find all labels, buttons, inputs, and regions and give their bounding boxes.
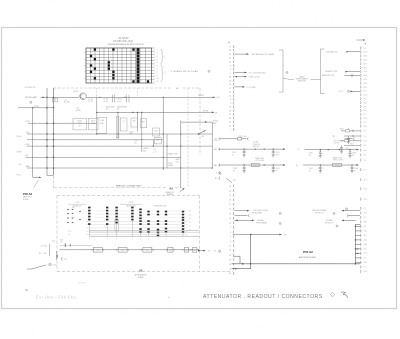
label swp x10 <box>176 159 181 163</box>
svg-text:9 J: 9 J <box>364 267 366 269</box>
label +12.6V feed <box>253 142 260 149</box>
svg-text:+12.6V: +12.6V <box>334 143 340 145</box>
svg-text:3 J: 3 J <box>364 249 366 251</box>
component box attenuator cell 2 <box>154 138 161 144</box>
svg-text:10 J: 10 J <box>364 75 367 77</box>
svg-text:10 J: 10 J <box>364 83 367 85</box>
wire vertical V6 <box>141 112 143 152</box>
attenuator section box B1 <box>92 248 104 253</box>
wire bus B4 <box>27 139 163 141</box>
resistor pack RP1 <box>88 207 90 237</box>
title revision squiggle <box>341 292 348 298</box>
svg-text:TP3: TP3 <box>332 136 335 138</box>
note 4b marker <box>25 288 29 292</box>
label R106 ATTEN value <box>117 106 128 111</box>
A1 internal dashed partition <box>187 88 189 188</box>
switch table wafer bracket upper <box>161 49 167 63</box>
inductor L202 on bus F2 <box>252 163 260 167</box>
wire -12.6V stub <box>18 107 54 109</box>
P/O A1 attenuator assembly dashed outline (top border) <box>54 87 201 90</box>
svg-text:VIA CABLE ASSY W-1 (A1A2): VIA CABLE ASSY W-1 (A1A2) <box>252 53 275 56</box>
wire attenuator output line <box>60 249 197 251</box>
capacitor C210 with lead <box>340 145 360 153</box>
wire readout data dashed line <box>54 187 183 189</box>
svg-text:C14: C14 <box>64 259 67 261</box>
svg-text:7 J: 7 J <box>364 122 366 124</box>
svg-text:10: 10 <box>229 126 231 128</box>
svg-text:15 J: 15 J <box>364 189 367 191</box>
lamp DS1 indicator <box>49 263 57 266</box>
svg-text:T CAL: T CAL <box>99 119 104 122</box>
svg-text:9 J: 9 J <box>364 91 366 93</box>
label main trig pickoff <box>255 157 264 162</box>
P/O A1 dashed outline right border <box>199 88 201 155</box>
input attenuator transistor stage <box>39 240 63 257</box>
switch table S2 contact grid <box>86 48 155 83</box>
svg-text:R30: R30 <box>193 250 196 252</box>
connector XA2 direction arrow <box>357 39 366 41</box>
label mid header note <box>154 205 167 208</box>
label C9 0.1 <box>153 149 155 153</box>
svg-text:23 J: 23 J <box>364 71 367 73</box>
capacitor C205 <box>309 150 322 158</box>
svg-text:9: 9 <box>230 241 231 243</box>
svg-text:–7: –7 <box>156 68 158 70</box>
svg-text:.01: .01 <box>60 242 62 244</box>
svg-text:30: 30 <box>229 223 231 225</box>
svg-text:24 J: 24 J <box>364 240 367 242</box>
P/O A1 dashed outline left border <box>53 88 55 188</box>
A3 annotation arrow <box>180 188 185 193</box>
svg-text:2: 2 <box>230 227 231 229</box>
resistor pack RP3 <box>115 207 117 237</box>
svg-text:6 J: 6 J <box>364 258 366 260</box>
transistor Q101 <box>80 93 87 100</box>
svg-text:1: 1 <box>230 73 231 75</box>
svg-text:+12V SEL: +12V SEL <box>40 246 47 248</box>
label -12.6V rail <box>34 106 40 108</box>
svg-text:7: 7 <box>230 129 231 131</box>
svg-text:29: 29 <box>229 107 231 109</box>
wire bus B1 <box>96 109 218 114</box>
wire cable link right <box>311 79 318 81</box>
svg-text:–6: –6 <box>156 65 158 67</box>
capacitor C2 pair <box>103 95 115 103</box>
svg-text:( DECADE SW ): ( DECADE SW ) <box>24 86 37 89</box>
svg-text:L203: L203 <box>335 165 339 167</box>
svg-text:–1: –1 <box>156 49 158 51</box>
wire filter bus F2 <box>219 164 286 166</box>
label +5V R7B <box>76 108 81 112</box>
svg-text:21 J: 21 J <box>364 231 367 233</box>
svg-text:28: 28 <box>229 77 231 79</box>
switch table left row ticks <box>84 53 86 78</box>
svg-text:0.1: 0.1 <box>352 155 354 157</box>
svg-text:17 J: 17 J <box>364 253 367 255</box>
svg-text:For thru / Fdb Ckts: For thru / Fdb Ckts <box>35 295 77 300</box>
wire pin return lower <box>232 268 251 270</box>
svg-text:GND: GND <box>25 166 30 168</box>
svg-text:20: 20 <box>229 264 231 266</box>
svg-text:18: 18 <box>229 259 231 261</box>
capacitor C3 pair <box>117 95 130 103</box>
svg-text:R21: R21 <box>154 130 157 132</box>
svg-text:7: 7 <box>230 236 231 238</box>
svg-text:23 J: 23 J <box>364 63 367 65</box>
svg-text:5 J: 5 J <box>364 217 366 219</box>
filter input resistor R201 <box>220 136 249 141</box>
svg-text:LEVEL: LEVEL <box>168 165 173 167</box>
connector XA2 label B <box>365 44 367 46</box>
resistor pack header R250 <box>68 202 86 207</box>
svg-text:TO C COUPLING (S2): TO C COUPLING (S2) <box>249 72 266 74</box>
wire XA2-8 main delayed <box>322 74 360 77</box>
svg-text:–2: –2 <box>156 53 158 55</box>
wire bus B5 <box>25 144 212 147</box>
left board edge pins <box>55 251 58 260</box>
wire U-bend joining V1 V2 <box>47 174 54 176</box>
board label P/O A2 <box>303 250 313 254</box>
wire filter bus F4 <box>296 164 359 167</box>
svg-text:W-BRN: W-BRN <box>16 152 22 154</box>
resistor pack RP7 <box>157 211 159 237</box>
wire XA2-2 cable <box>326 50 360 53</box>
svg-text:1 J: 1 J <box>364 136 366 138</box>
svg-text:+100: +100 <box>25 144 29 146</box>
svg-text:15: 15 <box>229 190 231 192</box>
svg-text:20 J: 20 J <box>364 262 367 264</box>
svg-text:47: 47 <box>276 170 278 172</box>
wire bus B7 <box>25 166 212 169</box>
wire probe input diagonal <box>27 265 46 269</box>
harness bracket right <box>317 49 325 94</box>
svg-text:21: 21 <box>229 84 231 86</box>
svg-text:CABLE: CABLE <box>299 75 305 78</box>
svg-text:20 J: 20 J <box>364 102 367 104</box>
wire tag (1) upper <box>214 140 218 142</box>
svg-text:P/O A2: P/O A2 <box>23 192 33 196</box>
svg-text:17: 17 <box>229 88 231 90</box>
svg-text:VIA W2: VIA W2 <box>198 94 204 97</box>
svg-text:22 J: 22 J <box>364 79 367 81</box>
svg-text:LVL: LVL <box>134 142 137 144</box>
svg-text:COUPLING (S2): COUPLING (S2) <box>113 40 133 43</box>
wire vertical V5 <box>136 112 138 131</box>
svg-text:23: 23 <box>229 50 231 52</box>
svg-text:AMPLIFIER BOARD: AMPLIFIER BOARD <box>299 256 317 259</box>
relay driver small parts <box>40 243 92 247</box>
svg-text:4 1: 4 1 <box>189 230 191 232</box>
svg-text:1 J: 1 J <box>364 160 366 162</box>
resistor pack RP2 <box>106 207 108 237</box>
svg-text:18: 18 <box>229 118 231 120</box>
wire board edge tick top <box>355 223 360 225</box>
svg-text:TO (2) GND: TO (2) GND <box>247 87 257 89</box>
svg-text:X10: X10 <box>176 161 179 163</box>
svg-text:4 1: 4 1 <box>189 222 191 224</box>
svg-text:16: 16 <box>229 255 231 257</box>
note 4b right <box>168 297 171 299</box>
attenuator section box B2 <box>117 248 129 253</box>
svg-text:26: 26 <box>229 213 231 215</box>
svg-text:FROM CKT: FROM CKT <box>325 222 334 224</box>
svg-text:VIA CABLE W1: VIA CABLE W1 <box>326 50 338 53</box>
svg-text:VIA L201: VIA L201 <box>253 145 260 148</box>
svg-text:1 J: 1 J <box>364 48 366 50</box>
svg-text:4 1: 4 1 <box>189 218 191 220</box>
component box attenuator cell <box>152 128 159 136</box>
capacitor C206 <box>349 150 357 158</box>
svg-text:5 J: 5 J <box>364 169 366 171</box>
lamp feed indicator <box>30 101 32 103</box>
svg-text:FROM CKT: FROM CKT <box>315 213 324 215</box>
svg-text:20 J: 20 J <box>364 110 367 112</box>
svg-text:R4 188: R4 188 <box>64 101 70 103</box>
wire pack bus upper <box>89 231 199 233</box>
wire pack bus lower <box>89 235 199 237</box>
capacitor C203 <box>233 165 246 173</box>
label main vertical board <box>23 196 32 201</box>
svg-text:C210: C210 <box>345 148 349 150</box>
label FROM LAMP <box>25 96 38 99</box>
title diamond mark <box>330 292 334 296</box>
label main delayed trig <box>333 156 344 161</box>
svg-text:28: 28 <box>229 218 231 220</box>
board label A5 <box>135 270 148 280</box>
component box K2 <box>131 118 137 127</box>
svg-text:47: 47 <box>354 170 356 172</box>
resistor pack RP9 <box>182 211 184 237</box>
svg-text:9: 9 <box>216 172 217 174</box>
label slope level <box>167 153 178 156</box>
handwritten note <box>35 295 77 300</box>
label readout board <box>166 191 176 196</box>
board label P/O A2 (left) <box>23 192 33 196</box>
wire vertical V3 <box>96 97 98 134</box>
svg-text:11: 11 <box>229 246 231 248</box>
svg-text:9 J: 9 J <box>364 99 366 101</box>
wire collector bus to right <box>86 94 215 98</box>
svg-text:2 J: 2 J <box>364 208 366 210</box>
note: wires with sleeving annotation <box>171 70 210 73</box>
svg-text:P/O A2: P/O A2 <box>303 250 313 254</box>
wire filter bus F3 <box>298 149 360 151</box>
capacitor C208 <box>351 165 359 173</box>
svg-text:1: 1 <box>116 239 117 241</box>
svg-text:21: 21 <box>229 204 231 206</box>
label MULT BAL <box>130 131 136 135</box>
svg-text:FROM LAMP: FROM LAMP <box>25 96 38 99</box>
svg-text:25: 25 <box>229 110 231 112</box>
switch S2 blade <box>198 130 206 138</box>
svg-text:24 J: 24 J <box>364 56 367 58</box>
svg-text:19 J: 19 J <box>364 150 367 152</box>
wire vertical V9 <box>180 121 182 188</box>
attenuator ladder rungs <box>86 211 188 234</box>
label TRIG LEVEL <box>134 140 139 144</box>
wire to delay pickoff <box>181 121 212 123</box>
label CR101 <box>74 91 80 93</box>
svg-text:R26: R26 <box>121 250 124 252</box>
svg-text:R25: R25 <box>96 250 99 252</box>
svg-text:6: 6 <box>230 99 231 101</box>
wire cable link left <box>288 79 295 81</box>
resistor pack RP4 <box>131 207 133 237</box>
attenuator section box B5 <box>183 248 190 253</box>
svg-text:12: 12 <box>229 61 231 63</box>
svg-text:-12.6V: -12.6V <box>34 106 40 108</box>
wire filter bus F1 <box>219 148 286 150</box>
pot R107 ATTEN box <box>89 118 99 130</box>
label trig level 2 <box>168 163 173 167</box>
capacitor C202 <box>272 149 280 157</box>
attenuator section box B3 <box>142 248 154 253</box>
svg-text:18 J: 18 J <box>364 222 367 224</box>
svg-text:BOARD: BOARD <box>138 276 145 279</box>
svg-text:ATTENUATOR , READOUT / CONNEC: ATTENUATOR , READOUT / CONNECTORS <box>203 294 323 300</box>
clamp bracket near input <box>62 257 68 261</box>
switch table row tick leads to bracket <box>155 49 159 83</box>
svg-text:11 J: 11 J <box>364 67 367 69</box>
wire pin jumper upper <box>233 256 240 264</box>
title ATTENUATOR READOUT CONNECTORS <box>203 294 323 300</box>
wire bus B6 <box>25 155 181 158</box>
svg-text:READOUT ( DATA LINES ): READOUT ( DATA LINES ) <box>116 184 143 187</box>
svg-text:47: 47 <box>233 170 235 172</box>
svg-text:21 J: 21 J <box>364 95 367 97</box>
svg-text:L202: L202 <box>254 165 258 167</box>
wire XA2-12 tp <box>338 90 360 93</box>
svg-text:4b.: 4b. <box>25 288 29 292</box>
svg-text:+ MAIN TRIG: + MAIN TRIG <box>167 153 178 156</box>
svg-text:23 J: 23 J <box>364 271 367 273</box>
svg-text:R210: R210 <box>340 128 344 130</box>
narrow component box <box>116 117 119 138</box>
resistor R211 with lead <box>341 140 360 146</box>
connector XA1 label A <box>228 41 230 44</box>
svg-text:22: 22 <box>229 269 231 271</box>
svg-text:47: 47 <box>309 170 311 172</box>
svg-text:+ TP 2: + TP 2 <box>338 91 343 93</box>
svg-text:2 WIRES WITH COAX: 2 WIRES WITH COAX <box>171 70 198 73</box>
svg-text:R2: R2 <box>39 253 41 255</box>
svg-text:14: 14 <box>229 122 231 124</box>
svg-text:S 25: S 25 <box>72 207 75 209</box>
label decade faint <box>24 86 37 89</box>
wire bus B3 <box>25 132 212 135</box>
wire amplifier left vertical <box>250 235 252 269</box>
svg-text:13: 13 <box>229 92 231 94</box>
filter right row TP lead <box>332 136 355 140</box>
wire XA1-8 to coupling switch <box>235 71 289 74</box>
svg-text:DS1: DS1 <box>54 264 57 266</box>
wire bus B2 (+12V) <box>25 121 97 124</box>
aux component group left of packs <box>67 207 81 236</box>
wire clamp lead <box>235 214 250 217</box>
component box K1 <box>120 118 127 131</box>
wire feed from harness <box>33 108 42 178</box>
svg-text:24: 24 <box>229 209 231 211</box>
test point lead <box>219 172 236 183</box>
svg-text:16: 16 <box>229 58 231 60</box>
annotation leader to P/O A2 label <box>34 180 39 187</box>
component box R12 <box>141 119 147 128</box>
connector XA2 right pin column <box>360 47 367 274</box>
svg-text:4 5: 4 5 <box>68 234 70 236</box>
svg-text:0.1: 0.1 <box>309 155 311 157</box>
label R105 TRIG value <box>106 107 115 111</box>
svg-text:24: 24 <box>229 273 231 275</box>
svg-text:17: 17 <box>229 195 231 197</box>
wire output to connector <box>197 250 221 253</box>
wire XA2-7 delayed trig <box>325 70 360 73</box>
svg-text:–10: –10 <box>156 78 159 80</box>
svg-text:21: 21 <box>229 114 231 116</box>
svg-text:+12.6V SEL: +12.6V SEL <box>255 160 264 162</box>
switch table closed-contact marks (filled squares) <box>90 48 149 83</box>
svg-text:19 J: 19 J <box>364 126 367 128</box>
svg-text:–5: –5 <box>156 62 158 64</box>
svg-text:19 J: 19 J <box>364 118 367 120</box>
svg-text:100: 100 <box>244 136 247 138</box>
pack terminal labels <box>89 239 184 241</box>
svg-text:.01 1K: .01 1K <box>117 101 123 103</box>
wire lamp bus <box>41 96 79 98</box>
svg-text:15 J: 15 J <box>364 213 367 215</box>
ground reference mark <box>345 208 347 210</box>
wire vertical V7b <box>166 134 167 168</box>
svg-text:3: 3 <box>230 103 231 105</box>
svg-text:1: 1 <box>89 239 90 241</box>
svg-text:9: 9 <box>230 65 231 67</box>
label R4 188 <box>64 99 70 103</box>
svg-text:7 J: 7 J <box>364 114 366 116</box>
svg-text:R28: R28 <box>169 250 172 252</box>
svg-text:.01 1K: .01 1K <box>103 101 109 103</box>
svg-text:–9: –9 <box>156 75 158 77</box>
svg-text:22 J: 22 J <box>364 87 367 89</box>
svg-text:L 250: L 250 <box>75 202 79 204</box>
svg-text:27: 27 <box>229 46 231 48</box>
harness bracket left <box>279 50 288 92</box>
note faint revision text <box>78 282 87 284</box>
left margin wire tags <box>16 136 22 177</box>
svg-text:1 2 3: 1 2 3 <box>68 231 72 233</box>
board label amplifier board <box>299 256 317 259</box>
capacitor C201 <box>232 149 246 157</box>
svg-text:SHOWN ENGAGED IN MIL POSIT: SHOWN ENGAGED IN MIL POSITION <box>107 43 144 46</box>
board label A3 <box>169 187 173 190</box>
switch table header text A1 S2 COUPLING <box>107 37 144 46</box>
svg-text:BAL: BAL <box>92 122 95 125</box>
wire vertical delay pickoff <box>211 122 213 168</box>
svg-text:16: 16 <box>215 165 217 167</box>
svg-text:R12: R12 <box>142 121 145 123</box>
svg-text:9 J: 9 J <box>364 131 366 133</box>
label delayed trig supply <box>334 140 342 144</box>
svg-text:FROM BEAM: FROM BEAM <box>257 221 268 224</box>
wire tag column right of packs <box>189 211 191 232</box>
svg-text:BAL: BAL <box>130 133 133 136</box>
pot R105 TRIG box <box>73 118 87 130</box>
svg-text:TP1: TP1 <box>233 180 236 182</box>
svg-text:(R7B): (R7B) <box>76 110 81 112</box>
svg-text:12 J: 12 J <box>364 52 367 54</box>
svg-text:R2: R2 <box>54 100 56 102</box>
svg-text:4 J: 4 J <box>364 145 366 147</box>
attenuator section box B6 <box>191 248 198 253</box>
svg-text:–4: –4 <box>156 59 158 61</box>
